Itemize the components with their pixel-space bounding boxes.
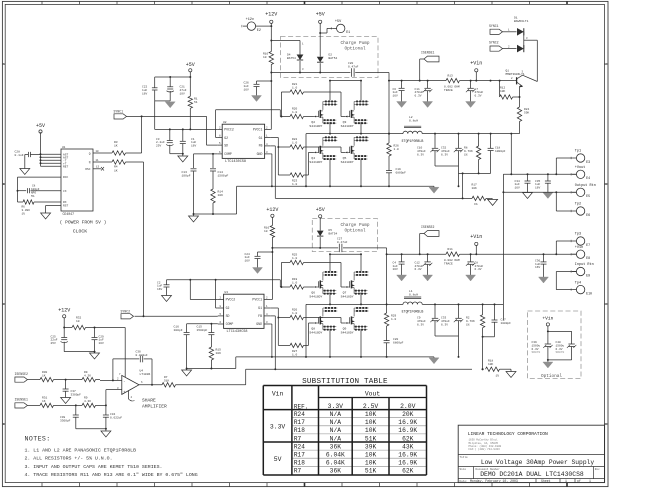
svg-text:100pF: 100pF [182,174,191,177]
svg-text:E8: E8 [586,256,590,260]
svg-text:DEMO DC201A DUAL LTC1430CS8: DEMO DC201A DUAL LTC1430CS8 [480,471,584,478]
svg-text:10K: 10K [365,419,377,426]
svg-text:10K: 10K [365,427,377,434]
terminal E10 Tp4 [571,281,592,295]
svg-text:PVCC1: PVCC1 [252,298,262,302]
svg-text:36K: 36K [330,468,342,475]
notes heading [25,436,51,443]
terminal E2 +12v [242,18,271,32]
svg-text:E7: E7 [586,243,590,247]
wire U3 GND pin [270,324,273,358]
resistor R13 0.002 OHM TRACE [444,75,460,93]
terminal E5 Output Rtn [571,184,596,198]
svg-text:36K: 36K [330,443,342,450]
wire G2 bus ch1 [277,138,290,176]
svg-text:G1: G1 [259,136,263,140]
svg-text:+Vin: +Vin [470,234,482,240]
svg-text:11: 11 [96,159,100,162]
svg-text:6.3V: 6.3V [475,95,482,98]
svg-text:SYNC1: SYNC1 [114,110,124,114]
svg-text:R7: R7 [294,435,302,442]
svg-text:R7: R7 [294,468,302,475]
ground (C29) [90,352,100,359]
wire R7 riser to FB2 [245,369,247,385]
svg-text:16.9K: 16.9K [398,419,417,426]
svg-text:6.3V: 6.3V [475,268,482,271]
svg-text:3. INPUT AND OUTPUT CAPS ARE K: 3. INPUT AND OUTPUT CAPS ARE KEMET T510 … [25,464,163,470]
svg-text:+5V: +5V [335,20,342,24]
+5V power flag (charge pump 2) [316,207,325,218]
capacitor C22 1uF 16V [142,77,158,101]
svg-text:S4410DY: S4410DY [309,331,322,335]
svg-text:6.04K: 6.04K [326,460,345,467]
capacitor C21 47uF 10V [167,77,187,101]
ground (C4) [397,275,407,281]
capacitor C16 100pF [174,324,218,369]
svg-text:S4410DY: S4410DY [341,160,354,164]
wire +5V to U1 pins [40,132,62,166]
ground (ch1 power) [429,186,439,193]
svg-text:C13: C13 [182,171,188,174]
svg-text:6.04K: 6.04K [326,452,345,459]
terminal E9 Input Rtn [571,263,594,277]
capacitor C14 1500pF [210,153,229,189]
resistor R3 1K [93,141,142,155]
capacitor C3 2.2uF 25V [156,129,174,153]
svg-text:1.0: 1.0 [394,148,399,151]
wire ch2 gnd bus [236,326,434,369]
connector ISENSE1 (share) [15,398,41,408]
capacitor C17 1000pF [483,304,512,336]
connector ISENSE2 (share) [15,372,41,382]
resistor R9b 4.3K [82,397,106,408]
svg-text:25V: 25V [51,342,56,345]
wire ch2 fet drains to +Vin [329,253,362,271]
svg-text:10K: 10K [365,452,377,459]
svg-text:SR070: SR070 [556,351,565,354]
resistor R32 10 [72,317,125,330]
svg-text:REF.: REF. [294,403,308,410]
wire C3/C1 gnd [170,153,184,155]
wire bootstrap 2 to switch node [386,248,388,305]
svg-text:C8: C8 [32,184,36,187]
wire output return 1 [502,174,576,320]
share amplifier caption [142,398,167,410]
capacitor C24 1uF 16V [245,252,273,268]
svg-text:U2: U2 [223,121,227,124]
svg-text:1%: 1% [496,375,500,378]
substitution table [263,378,426,475]
capacitor C20 0.47uF [348,62,359,77]
op IC U2 LTC1430CS8 [218,121,270,164]
transistor Q3 S4410DY [341,101,369,129]
op IC U1 CD4047 [61,146,93,216]
wire pvcc rail 1 [271,72,389,74]
ground (C36) [539,277,549,283]
resistor R25 1.0 [290,254,345,288]
svg-text:Optional: Optional [541,374,562,379]
svg-text:C28: C28 [15,151,21,154]
svg-text:COMP: COMP [226,322,234,326]
svg-text:1K: 1K [114,169,118,172]
terminal E1 +5V [319,20,350,34]
svg-text:+5V: +5V [186,62,195,68]
svg-text:1.0: 1.0 [292,257,297,260]
svg-text:FB: FB [258,314,262,318]
svg-text:+Vin: +Vin [575,245,583,250]
resistor R12 10K [499,80,521,100]
ground (C2) [162,296,172,302]
svg-text:1000pF: 1000pF [501,322,512,325]
capacitor C34 1uF 16V [515,174,531,192]
wire G2 bus ch2 [277,308,290,345]
svg-text:G1: G1 [258,306,262,310]
svg-text:1.0: 1.0 [292,281,297,284]
svg-text:SYNC2: SYNC2 [489,41,499,45]
svg-text:1.0: 1.0 [391,318,396,321]
capacitor C8 470uF 6.3V [466,254,484,275]
capacitor C26 1uF 16V [244,81,272,96]
wire pvcc rail 2 [272,247,386,249]
ground (C21/C22) [165,102,175,108]
ground (C8) [466,275,476,281]
wire Vout bus 1 [503,134,576,176]
svg-text:SD: SD [224,143,228,147]
capacitor C9 470uF 6.3V [417,304,460,358]
svg-text:0.47uF: 0.47uF [337,241,348,244]
wire non-inverting input [105,387,122,407]
wire +Vin bus 2 [387,253,577,255]
capacitor C1 1uF 16V [180,128,197,153]
resistor R30 1K [40,371,82,382]
diode D2 BAT54 [317,23,338,73]
svg-text:Low Voltage 30Amp Power Supply: Low Voltage 30Amp Power Supply [481,459,595,466]
svg-text:6.3V: 6.3V [415,95,422,98]
svg-text:0.47uF: 0.47uF [348,66,359,69]
svg-text:1K: 1K [42,400,46,403]
resistor R9 4.3K [82,371,100,382]
svg-text:E2: E2 [257,28,261,32]
svg-text:1.0: 1.0 [292,353,297,356]
svg-text:NOTES:: NOTES: [25,436,51,443]
svg-text:A: A [3,63,5,66]
svg-text:1.0: 1.0 [292,141,297,144]
charge pump 1 optional box [281,37,379,78]
capacitor C36 1uF 16V [535,254,547,277]
terminal E6 Tp2 [571,203,590,217]
svg-text:N/A: N/A [330,435,342,442]
svg-text:BAT54: BAT54 [329,232,338,235]
svg-text:16V: 16V [244,89,249,92]
svg-text:Rev: Rev [595,468,600,471]
svg-text:25V: 25V [156,145,161,148]
capacitor C40 1500uF 6.3V [547,341,576,361]
svg-text:+12v: +12v [246,18,254,22]
svg-text:R14: R14 [218,191,224,194]
svg-text:ETQP1F0R8LB: ETQP1F0R8LB [402,139,424,143]
resistor R15 10K [209,347,221,369]
terminal E7 Tp3 [556,233,590,255]
svg-text:1: 1 [565,479,567,483]
svg-text:N/A: N/A [330,427,342,434]
svg-text:Size: Size [460,467,467,471]
svg-text:0.8uH: 0.8uH [409,293,418,296]
svg-text:S4410DY: S4410DY [309,295,322,299]
svg-text:1500pF: 1500pF [197,329,208,332]
svg-text:Q: Q [89,161,91,164]
svg-text:E4: E4 [586,176,590,180]
svg-text:1%: 1% [464,153,468,156]
wire U3 top loop [167,279,282,308]
note 2 [25,456,113,462]
svg-text:10: 10 [263,56,267,59]
svg-text:1K: 1K [114,145,118,148]
resistor R19 1.0 [290,278,314,289]
ground (C7) [466,102,476,108]
note 3 [25,464,163,470]
capacitor C8 100pF NPO 5% [27,184,39,198]
svg-text:1%: 1% [466,323,470,326]
ground (R18) [506,369,516,377]
svg-text:1. L1 AND L2 ARE PANASONIC ETQ: 1. L1 AND L2 ARE PANASONIC ETQP1F0R8LB [25,447,137,453]
wire optional caps [547,326,572,344]
svg-text:R24: R24 [294,411,305,418]
resistor R20 1.0 [290,108,314,119]
ground (C37) [61,398,71,404]
svg-text:E1: E1 [346,30,350,34]
ground (C11) [423,102,433,108]
wire ch1 gnd bus [237,155,434,214]
svg-text:FB: FB [259,143,263,147]
resistor R24 59K [517,107,529,134]
svg-text:0.8uH: 0.8uH [409,119,418,122]
svg-text:13: 13 [96,166,100,169]
capacitor C39 1500uF 6.3V [532,341,553,362]
svg-text:N/A: N/A [330,411,342,418]
svg-text:1.0: 1.0 [292,312,297,315]
svg-text:6800pF: 6800pF [396,171,407,174]
wire FB1 node [459,172,491,199]
terminal E3 Tp1 [556,150,590,175]
svg-text:6.3V: 6.3V [417,153,424,156]
ground (C1/C3) [178,154,188,162]
svg-text:6.3V: 6.3V [417,323,424,326]
svg-text:+5V: +5V [316,12,325,18]
charge pump 2 optional box [312,219,377,252]
transistor Q5 S4410DY [341,136,369,164]
svg-text:AMPLIFIER: AMPLIFIER [142,404,167,410]
svg-text:S4410DY: S4410DY [309,124,322,128]
svg-text:BAT54: BAT54 [329,57,338,60]
capacitor C18 1000pF [488,134,506,174]
transistor Q7 S4410DY [341,271,369,299]
svg-text:3.3V: 3.3V [328,403,344,410]
transistor Q6 S4410DY [309,271,337,299]
connector SYNC2 (clock out) [121,162,218,319]
svg-text:D: D [3,423,5,426]
resistor R23 1.0 [290,152,314,186]
svg-text:SR070: SR070 [532,351,541,354]
svg-text:62K: 62K [402,435,414,442]
wire ch1 switch bus [306,122,520,164]
+12V power flag (share amp) [58,308,70,318]
svg-text:R1: R1 [194,98,198,101]
capacitor C32 470uF 6.3V [441,134,463,166]
svg-text:6.3V: 6.3V [441,153,448,156]
svg-text:C15: C15 [197,325,203,328]
svg-text:G2: G2 [224,136,228,140]
capacitor C28 0.1uF [15,151,41,169]
svg-text:16V: 16V [245,260,250,263]
svg-text:R18: R18 [294,427,305,434]
svg-text:16V: 16V [99,342,104,345]
terminal E8 +Vin [571,245,590,260]
wire COMP2 bottom [186,368,236,370]
svg-text:10V: 10V [180,92,185,95]
svg-text:Tp3: Tp3 [575,233,581,237]
resistor R7 51K [162,376,246,387]
svg-text:10K: 10K [365,460,377,467]
svg-text:SHARE: SHARE [142,398,156,404]
svg-text:1000pF: 1000pF [495,150,506,153]
svg-text:+12V: +12V [58,308,70,314]
U1 OSC pin stub [93,166,104,171]
connector SYNC2 (right) [489,41,517,52]
svg-text:+Vout: +Vout [575,166,586,170]
svg-text:43K: 43K [402,443,414,450]
svg-text:10K: 10K [216,352,222,355]
capacitor C4 1uF 16V [393,254,405,275]
ground (C35) [543,193,553,199]
connector SYNC1 (clock out) [114,110,218,153]
transistor Q1 MMBT3906LT1 [506,70,538,108]
capacitor C37 3300pF [63,380,82,398]
svg-text:10K: 10K [218,194,224,197]
svg-text:Date:: Date: [460,480,468,483]
svg-text:G2: G2 [226,306,230,310]
capacitor C11 470uF 6.3V [415,81,433,102]
U1 RST wire + ground [41,206,61,220]
svg-text:S4410DY: S4410DY [341,331,354,335]
svg-text:Tp4: Tp4 [575,281,581,285]
svg-text:+5V: +5V [316,207,325,213]
wire U2 PVCC2 [155,128,218,130]
svg-text:SD: SD [226,314,230,318]
wire ch2 switch bus [306,293,503,335]
svg-text:+Vin: +Vin [542,316,553,322]
resistor R31 1K [40,397,82,408]
transistor Q8 S4410DY [309,307,337,335]
svg-text:1.0: 1.0 [292,111,297,114]
wire +12V rail 2 [270,217,273,299]
svg-text:+12V: +12V [265,12,277,18]
capacitor C38 3300pF [60,405,106,428]
svg-text:ISENSE1: ISENSE1 [421,51,434,55]
resistor R29 1.0 [384,304,396,326]
svg-text:3300pF: 3300pF [60,419,71,422]
svg-text:+5V: +5V [36,123,45,129]
op IC U3 LTC1430CS8 [218,291,270,334]
inductor L2 0.8uH [402,116,424,143]
svg-text:0.1uF: 0.1uF [15,154,24,157]
svg-text:S4410DY: S4410DY [309,160,322,164]
svg-text:ISENSE2: ISENSE2 [15,372,28,376]
svg-text:16V: 16V [393,95,398,98]
resistor R17 10K 1% [472,184,491,206]
svg-text:16V: 16V [535,187,540,190]
svg-text:S4410DY: S4410DY [341,295,354,299]
svg-text:R17: R17 [294,419,305,426]
svg-text:51K: 51K [365,435,377,442]
+5V power flag (U2) [186,62,195,72]
+12V power flag (ch2) [266,207,278,217]
wire U2 top loop [216,110,282,138]
svg-text:CX: CX [63,190,67,193]
svg-text:59K: 59K [524,111,529,114]
capacitor C15 1500pF [197,323,215,347]
svg-text:R18: R18 [294,460,305,467]
svg-text:R17: R17 [294,452,305,459]
svg-text:1.0: 1.0 [292,183,297,186]
svg-text:E9: E9 [586,273,590,277]
svg-text:U1: U1 [62,146,66,149]
+Vin power flag (ch2) [470,234,482,254]
svg-text:B: B [3,183,5,186]
resistor R14 10K [211,189,223,214]
svg-text:Vout: Vout [365,390,381,397]
resistor R8 9.76K 1% [464,134,481,174]
svg-text:Output Rtn: Output Rtn [575,184,596,188]
svg-text:1: 1 [589,479,591,483]
svg-text:6800pF: 6800pF [393,341,404,344]
svg-text:C16: C16 [174,325,180,328]
svg-text:16.9K: 16.9K [398,452,417,459]
wire +12V rail [270,23,272,129]
+5V power flag (charge pump 1) [316,12,325,24]
ground (C26) [252,96,262,102]
transistor Q4 S4410DY [309,136,337,164]
capacitor C12 470uF 6.3V [415,254,433,275]
svg-text:E5: E5 [586,194,590,198]
resistor R22 1.0 [290,138,345,152]
svg-text:+12V: +12V [266,207,278,213]
resistor R27 1.0 [290,323,314,356]
svg-text:Sheet: Sheet [541,479,551,483]
svg-text:RCC: RCC [63,176,68,179]
svg-text:+Vin: +Vin [470,61,482,67]
svg-text:Q: Q [89,153,91,156]
ground (C28) [20,169,30,175]
ground (optional caps) [543,362,553,368]
svg-text:16V: 16V [535,266,540,269]
resistor R11 0.002 OHM TRACE [444,248,460,266]
capacitor C34b 0.022uF [103,405,123,431]
wire +12V share [63,318,72,329]
svg-text:16.9K: 16.9K [398,427,417,434]
svg-text:51: 51 [194,101,198,104]
svg-text:FAX:( (408) 744-9433: FAX:( (408) 744-9433 [469,447,501,451]
svg-text:Input Rtn: Input Rtn [575,263,594,267]
svg-text:D: D [605,423,607,426]
svg-text:16V: 16V [157,288,162,291]
svg-text:10K: 10K [472,187,477,190]
wire +5V filter loop [155,72,192,129]
svg-text:4.3K: 4.3K [84,374,91,377]
svg-text:1.0: 1.0 [292,86,297,89]
svg-text:1K: 1K [42,374,46,377]
svg-text:U3: U3 [225,291,229,294]
svg-text:GND: GND [257,152,263,156]
